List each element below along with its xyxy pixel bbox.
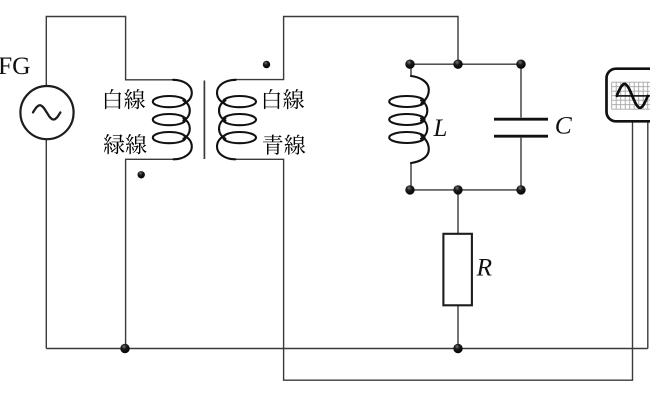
label 白線 primary top [105,89,145,109]
wire scope right lead [647,122,649,349]
label 緑線 primary bottom [104,134,147,154]
junction dot [453,59,462,68]
wire C leads [520,64,522,190]
transformer T secondary coil [217,80,256,160]
wire primary bottom lead [126,159,174,348]
svg-text:C: C [555,110,573,139]
transformer T primary coil [153,80,192,160]
wire bottom rail A [46,348,648,350]
svg-text:FG: FG [0,51,31,80]
junction dot [516,185,525,194]
junction dot [405,59,414,68]
oscilloscope trace [617,84,648,108]
junction dot [453,185,462,194]
wire L leads [410,64,412,190]
resistor R [443,234,472,305]
transformer core [203,81,205,160]
label 白線 secondary top [264,89,304,109]
oscilloscope axis [616,95,650,97]
junction dot [120,344,129,353]
svg-text:R: R [476,253,493,282]
wire FG bottom lead [45,139,47,349]
inductor L [389,76,429,163]
junction dot [405,185,414,194]
wire FG top to transformer primary top [46,17,173,87]
label 青線 secondary bottom [263,135,305,155]
oscilloscope grid [612,82,650,109]
svg-text:L: L [433,115,448,142]
source FG [20,86,73,139]
wire secondary bottom to scope left lead [234,122,632,381]
wire LC bottom rail [410,189,521,191]
wire R leads [457,190,459,349]
junction dot [453,344,462,353]
polarity dot primary [138,171,145,178]
wire LC top rail [410,63,521,65]
polarity dot secondary [263,61,270,68]
oscilloscope body [607,69,650,122]
wire secondary top to LC tank [234,17,458,80]
capacitor C [494,119,548,136]
junction dot [516,59,525,68]
